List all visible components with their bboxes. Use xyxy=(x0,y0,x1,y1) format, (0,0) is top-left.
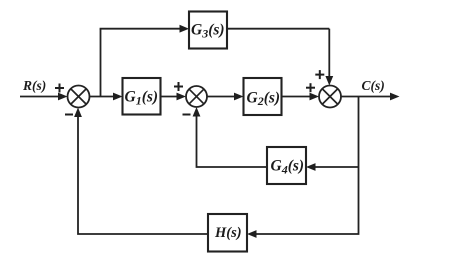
svg-text:G2(s): G2(s) xyxy=(247,89,281,108)
svg-text:H(s): H(s) xyxy=(214,225,242,241)
svg-text:G3(s): G3(s) xyxy=(191,22,225,41)
svg-text:G1(s): G1(s) xyxy=(125,89,159,108)
svg-text:C(s): C(s) xyxy=(362,78,385,93)
svg-text:R(s): R(s) xyxy=(22,78,46,93)
svg-text:G4(s): G4(s) xyxy=(271,158,305,177)
